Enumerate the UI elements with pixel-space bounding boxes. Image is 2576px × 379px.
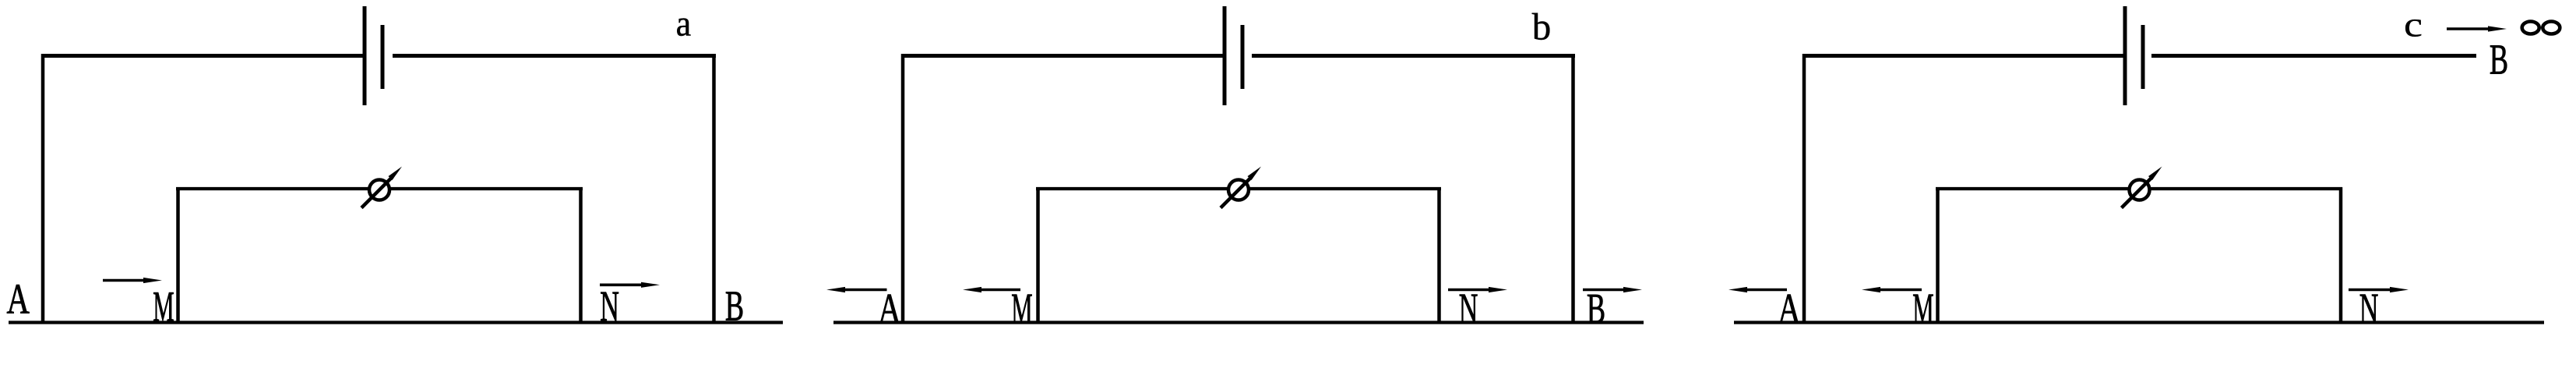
circuit b left vertical wire A [901, 54, 905, 324]
circuit c baseline wire [1734, 321, 2544, 324]
circuit b loop right vertical wire N [1437, 187, 1441, 324]
svg-text:A: A [1778, 285, 1800, 332]
arrow c near N, pointing right [2349, 287, 2409, 292]
svg-text:M: M [1912, 285, 1933, 333]
galvanometer a [361, 167, 402, 208]
arrow b near B, pointing right [1583, 287, 1642, 292]
circuit b top wire left segment [901, 54, 1225, 58]
galvanometer b [1221, 167, 1261, 208]
circuit b loop top wire right segment [1249, 187, 1441, 190]
svg-text:b: b [1532, 5, 1552, 48]
circuit a left vertical wire A [41, 54, 45, 324]
circuit a loop top wire left segment [176, 187, 369, 190]
circuit a baseline wire [9, 321, 783, 324]
svg-text:B: B [1587, 285, 1605, 333]
circuit b right vertical wire B [1571, 54, 1575, 324]
arrow a near N, pointing right [600, 282, 660, 288]
arrow a near M, pointing right [103, 278, 162, 283]
svg-text:M: M [1011, 285, 1032, 333]
svg-text:B: B [2490, 36, 2508, 83]
circuit c loop top wire right segment [2150, 187, 2343, 190]
svg-text:A: A [878, 285, 900, 332]
circuit c loop top wire left segment [1936, 187, 2130, 190]
circuit a loop top wire right segment [389, 187, 583, 190]
circuit b loop left vertical wire M [1036, 187, 1040, 324]
circuit a loop left vertical wire M [176, 187, 180, 324]
svg-text:N: N [2359, 285, 2379, 332]
circuit a top wire right segment [393, 54, 716, 58]
circuit a loop right vertical wire N [579, 187, 583, 324]
battery a short plate [381, 25, 385, 89]
circuit c top wire right segment (to B, open end) [2151, 54, 2476, 58]
arrow c near A, pointing left [1728, 287, 1787, 292]
svg-text:a: a [676, 3, 691, 44]
battery b long plate [1223, 6, 1227, 105]
galvanometer c [2122, 167, 2162, 208]
svg-text:c: c [2404, 5, 2423, 44]
circuit a top wire left segment [41, 54, 365, 58]
arrow c toward infinity, pointing right [2447, 26, 2507, 31]
infinity symbol [2522, 22, 2560, 34]
arrow c near M, pointing left [1862, 287, 1922, 292]
battery a long plate [363, 6, 367, 105]
circuit b loop top wire left segment [1036, 187, 1228, 190]
svg-text:N: N [600, 282, 619, 330]
circuit a right vertical wire B [712, 54, 716, 324]
circuit b top wire right segment [1252, 54, 1575, 58]
svg-text:M: M [153, 282, 174, 331]
arrow b near A, pointing left [826, 287, 887, 292]
battery c short plate [2141, 25, 2145, 89]
circuit b baseline wire [833, 321, 1644, 324]
svg-text:N: N [1459, 285, 1478, 332]
circuit c loop left vertical wire M [1936, 187, 1940, 324]
circuit c top wire left segment [1802, 54, 2125, 58]
circuit c left vertical wire A [1802, 54, 1806, 324]
battery c long plate [2123, 6, 2127, 105]
svg-text:A: A [7, 276, 30, 323]
arrow b near N, pointing right [1448, 287, 1507, 292]
svg-text:B: B [725, 282, 744, 330]
arrow b near M, pointing left [963, 287, 1020, 292]
battery b short plate [1241, 25, 1245, 89]
circuit c loop right vertical wire N [2339, 187, 2343, 324]
